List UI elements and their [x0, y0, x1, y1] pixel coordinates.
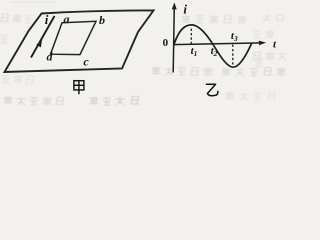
dashed ordinate at t3 (trough): [232, 45, 234, 66]
svg-text:i: i: [183, 2, 187, 17]
sinusoidal current curve: [174, 25, 252, 67]
svg-text:i: i: [45, 12, 49, 27]
t axis arrowhead: [259, 41, 266, 46]
caption YI (Chinese: second) drawn as strokes: [206, 84, 218, 95]
straight current-carrying wire: [31, 16, 55, 58]
svg-text:0: 0: [163, 37, 169, 49]
svg-text:a: a: [64, 12, 70, 26]
svg-text:c: c: [83, 55, 89, 69]
i axis (vertical): [173, 5, 174, 73]
svg-text:b: b: [99, 13, 105, 27]
i axis arrowhead: [172, 2, 177, 9]
caption JIA (Chinese: first) drawn as strokes: [74, 81, 84, 95]
rectangular loop abcd: [51, 21, 97, 54]
svg-text:d: d: [47, 50, 54, 64]
current direction arrowhead on wire: [36, 40, 42, 47]
dashed ordinate at t1 (peak): [190, 29, 192, 44]
faint print-through texture (back of page), decorative: [0, 1, 286, 105]
t axis (horizontal): [174, 43, 261, 45]
field region boundary parallelogram: [5, 10, 154, 72]
